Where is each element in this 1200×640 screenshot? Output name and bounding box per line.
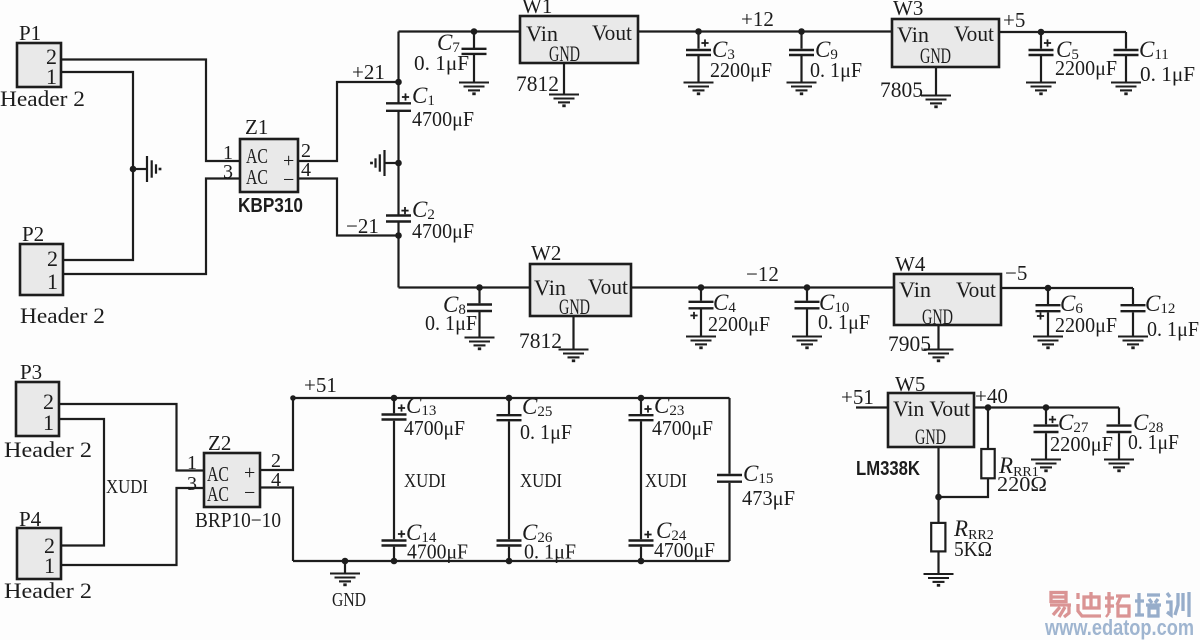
svg-text:Header 2: Header 2 — [4, 437, 92, 462]
connector P1 — [17, 43, 61, 87]
capacitor C6 — [1045, 285, 1052, 292]
ground at P1/P2 junction — [130, 166, 137, 173]
wire +21 bus to W1 — [399, 30, 521, 32]
svg-text:AC: AC — [207, 482, 229, 506]
ground W4 — [924, 350, 954, 361]
svg-text:1: 1 — [47, 269, 58, 294]
resistor RR2 — [931, 523, 945, 552]
svg-text:GND: GND — [549, 41, 580, 66]
svg-text:W1: W1 — [522, 0, 552, 18]
svg-text:+21: +21 — [352, 60, 385, 84]
svg-text:Vin Vout: Vin Vout — [893, 396, 970, 421]
svg-text:P1: P1 — [19, 21, 41, 45]
ground C27 — [1031, 460, 1061, 471]
wire -21 bus to W2 — [399, 286, 531, 288]
svg-text:+51: +51 — [841, 385, 874, 409]
svg-text:W5: W5 — [895, 372, 925, 396]
wire bottom rail — [293, 560, 730, 562]
svg-text:Header 2: Header 2 — [20, 303, 105, 328]
svg-text:0. 1μF: 0. 1μF — [425, 311, 477, 335]
wire W5 input — [856, 406, 888, 408]
svg-text:Vout: Vout — [954, 21, 994, 46]
wire W1 out to W3 — [638, 30, 892, 32]
svg-text:4700μF: 4700μF — [404, 416, 465, 440]
svg-text:0. 1μF: 0. 1μF — [810, 58, 862, 82]
svg-text:1: 1 — [44, 553, 55, 578]
capacitor C11 — [1125, 32, 1127, 49]
wire Z2 pin2 to +51 rail — [260, 398, 293, 470]
ground C11 — [1111, 83, 1141, 94]
capacitor C13 — [391, 395, 398, 402]
connector P4 — [17, 528, 61, 579]
wire P3 pin2 to Z2 pin1 — [59, 404, 204, 471]
ground C5 — [1026, 83, 1056, 94]
wire +51 rail — [293, 397, 730, 399]
ground at center bus — [395, 160, 402, 167]
wire W2 GND pin — [572, 316, 574, 350]
wire W4 out — [1001, 287, 1133, 289]
svg-text:1: 1 — [43, 410, 54, 435]
capacitor C8 — [476, 284, 483, 291]
wire Z2 pin4 to bottom rail — [260, 488, 293, 562]
svg-text:−21: −21 — [346, 214, 379, 238]
capacitor C1 — [386, 103, 411, 111]
svg-text:BRP10−10: BRP10−10 — [195, 508, 281, 532]
wire P2 pin1 to Z1 pin3 — [63, 179, 240, 275]
ground W1 — [549, 95, 579, 106]
wire W3 out — [999, 31, 1126, 33]
svg-text:473μF: 473μF — [742, 486, 795, 510]
capacitor C5 — [1038, 29, 1045, 36]
svg-text:0. 1μF: 0. 1μF — [1128, 430, 1179, 454]
svg-text:−: − — [244, 482, 255, 504]
svg-text:2: 2 — [47, 246, 58, 271]
capacitor C7 — [471, 28, 478, 35]
svg-text:0. 1μF: 0. 1μF — [818, 310, 870, 334]
svg-text:4700μF: 4700μF — [412, 107, 474, 131]
ground C6 — [1033, 337, 1063, 348]
svg-text:+5: +5 — [1003, 8, 1025, 32]
svg-text:XUDI: XUDI — [520, 470, 562, 492]
svg-text:1: 1 — [187, 452, 197, 474]
svg-text:0. 1μF: 0. 1μF — [414, 51, 469, 75]
capacitor C12 — [1132, 288, 1134, 304]
capacitor C23 — [638, 395, 645, 402]
svg-text:Vout: Vout — [592, 20, 632, 45]
ground RR2 — [924, 574, 954, 585]
wire Z1 pin2 to +21 rail — [298, 82, 397, 161]
wire W3 GND pin — [935, 67, 937, 96]
watermark logo — [1050, 592, 1189, 617]
svg-text:P4: P4 — [19, 507, 42, 531]
svg-text:GND: GND — [915, 424, 946, 449]
ground C4 — [686, 337, 716, 348]
wire P3 pin1 to P4 pin2 — [59, 419, 104, 546]
svg-text:2200μF: 2200μF — [708, 312, 770, 336]
svg-text:W4: W4 — [895, 252, 926, 276]
ground C9 — [787, 83, 817, 94]
capacitor C27 — [1043, 404, 1050, 411]
svg-text:+: + — [244, 462, 255, 484]
wire P1 pin2 to Z1 pin1 — [61, 60, 240, 162]
svg-text:Vout: Vout — [956, 277, 996, 302]
svg-text:0. 1μF: 0. 1μF — [524, 540, 576, 564]
svg-text:Vin: Vin — [899, 277, 931, 302]
wire C23-C24 link — [640, 421, 642, 539]
capacitor C14 — [382, 541, 407, 546]
svg-text:XUDI: XUDI — [404, 470, 446, 492]
ground C12 — [1118, 337, 1148, 348]
ground W3 — [921, 96, 951, 107]
svg-text:7812: 7812 — [519, 328, 562, 353]
svg-text:Vout: Vout — [588, 274, 628, 299]
capacitor C10 — [804, 284, 811, 291]
ground C8 — [465, 338, 495, 349]
capacitor C3 — [695, 28, 702, 35]
svg-text:4700μF: 4700μF — [412, 219, 474, 243]
svg-text:W3: W3 — [893, 0, 923, 20]
wire center bus — [397, 32, 399, 288]
capacitor C4 — [698, 284, 705, 291]
wire W2 out to W4 — [631, 286, 894, 288]
svg-text:7805: 7805 — [880, 77, 923, 102]
connector P2 — [20, 244, 63, 295]
svg-text:3: 3 — [187, 473, 197, 495]
svg-text:Z2: Z2 — [208, 431, 231, 455]
svg-text:2200μF: 2200μF — [710, 58, 772, 82]
svg-text:220Ω: 220Ω — [997, 472, 1047, 496]
svg-text:GND: GND — [920, 43, 951, 68]
svg-text:3: 3 — [223, 161, 233, 183]
svg-text:Header 2: Header 2 — [4, 578, 92, 603]
svg-text:GND: GND — [559, 294, 590, 319]
capacitor C25 — [506, 395, 513, 402]
wire W1 GND pin — [563, 63, 565, 95]
svg-text:www.edatop.com: www.edatop.com — [1044, 615, 1194, 640]
wire W4 GND pin — [937, 325, 939, 350]
svg-text:Header 2: Header 2 — [0, 86, 85, 111]
svg-text:−5: −5 — [1005, 261, 1027, 285]
svg-text:XUDI: XUDI — [106, 476, 148, 498]
svg-text:XUDI: XUDI — [645, 470, 687, 492]
svg-text:Z1: Z1 — [245, 115, 268, 139]
svg-text:7905: 7905 — [888, 331, 931, 356]
svg-text:−: − — [283, 169, 294, 191]
svg-text:W2: W2 — [531, 241, 561, 265]
svg-text:KBP310: KBP310 — [238, 195, 303, 217]
svg-text:2200μF: 2200μF — [1055, 313, 1117, 337]
capacitor C15 — [728, 398, 730, 561]
connector P3 — [16, 382, 59, 436]
svg-text:5KΩ: 5KΩ — [954, 537, 992, 561]
wire P1 pin1 to P2 pin2 — [61, 72, 133, 260]
regulator W1 — [520, 16, 638, 63]
svg-text:0. 1μF: 0. 1μF — [1147, 317, 1199, 341]
svg-text:P2: P2 — [22, 222, 44, 246]
capacitor C2 — [386, 216, 411, 222]
svg-text:P3: P3 — [20, 360, 42, 384]
resistor RR1 — [985, 404, 992, 411]
regulator W3 — [892, 19, 999, 67]
regulator W4 — [894, 274, 1001, 325]
bridge rectifier Z1 — [240, 139, 298, 192]
wire C13-C14 link — [393, 421, 395, 540]
svg-text:4700μF: 4700μF — [654, 538, 715, 562]
svg-text:2200μF: 2200μF — [1055, 56, 1117, 80]
svg-text:LM338K: LM338K — [856, 458, 920, 480]
wire Z1 pin4 to -21 rail — [298, 179, 397, 236]
ground C10 — [792, 337, 822, 348]
svg-text:4700μF: 4700μF — [407, 540, 468, 564]
ground W2 — [559, 350, 589, 361]
regulator W2 — [530, 264, 631, 316]
ground GND (bottom) — [342, 558, 349, 565]
ground C3 — [684, 83, 714, 94]
wire P4 pin1 to Z2 pin3 — [61, 488, 204, 565]
capacitor C24 — [629, 541, 654, 546]
capacitor C28 — [1118, 408, 1120, 425]
wire W5 GND pin — [937, 447, 939, 523]
svg-text:2200μF: 2200μF — [1050, 432, 1113, 456]
capacitor C9 — [798, 28, 805, 35]
capacitor C26 — [497, 541, 522, 546]
svg-text:0. 1μF: 0. 1μF — [520, 420, 572, 444]
wire C25-C26 link — [508, 421, 510, 539]
svg-text:AC: AC — [246, 165, 268, 189]
ground C7 — [459, 83, 489, 94]
svg-text:+51: +51 — [304, 373, 337, 397]
wire W5 output — [974, 406, 1119, 408]
ground C28 — [1104, 460, 1134, 471]
svg-text:4700μF: 4700μF — [652, 416, 713, 440]
svg-text:7812: 7812 — [516, 71, 559, 96]
svg-text:GND: GND — [332, 589, 366, 611]
svg-text:−12: −12 — [746, 262, 779, 286]
svg-text:+40: +40 — [975, 384, 1008, 408]
bridge rectifier Z2 — [204, 453, 260, 507]
svg-text:+12: +12 — [741, 7, 774, 31]
regulator W5 — [888, 393, 974, 447]
svg-text:0. 1μF: 0. 1μF — [1140, 62, 1195, 86]
